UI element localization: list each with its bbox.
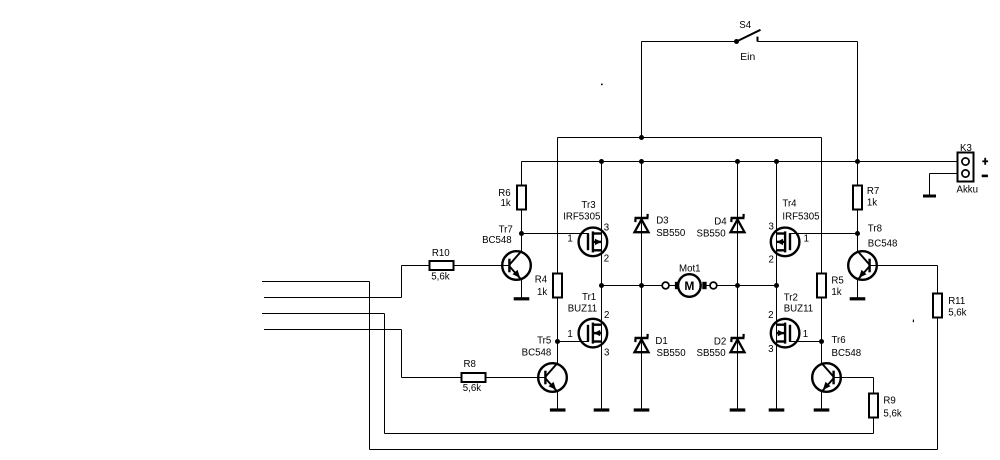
wire Tr1 gate line [558,341,589,343]
wire input2 rise to R10 [401,266,403,298]
label Tr2 [784,292,813,314]
svg-text:R9: R9 [883,395,895,406]
resistor R8 5,6k [462,359,486,394]
resistor R6 1k [498,186,526,210]
wire motor right terminal link [707,285,711,287]
label Tr7 [482,225,513,246]
node motor row / D1 [639,283,644,288]
ground Tr6 emitter [814,408,830,411]
svg-text:Tr4: Tr4 [782,199,797,210]
wire bottom return to R11 [370,449,938,451]
wire R5 bottom to Tr6 collector [821,298,823,364]
label Tr5 [522,335,552,358]
svg-text:Tr6: Tr6 [832,335,846,346]
wire Tr7 emitter to ground [521,280,523,298]
wire left bridge column [601,162,603,409]
node switched rail / S4 [639,135,644,140]
ground left bridge column [594,408,610,411]
label D1 [655,336,686,359]
svg-text:Tr5: Tr5 [537,335,551,346]
wire R7 top lead [857,162,859,186]
pin labels Tr2 [768,310,808,355]
svg-text:SB550: SB550 [697,348,727,359]
svg-text:R11: R11 [948,296,965,307]
svg-text:Tr3: Tr3 [581,200,595,211]
resistor R9 5,6k [869,394,902,420]
svg-text:2: 2 [769,254,774,265]
motor Mot1 [662,264,717,297]
stray dot [601,84,603,86]
label Tr6 [832,335,862,359]
wire motor left terminal link [669,285,675,287]
wire R7 bottom to Tr8 collector [857,210,859,252]
svg-text:Tr1: Tr1 [582,292,596,303]
pin labels Tr3 [567,222,609,264]
wire D4-D2 column [737,162,739,409]
svg-text:3: 3 [768,344,773,355]
transistor Tr6 BC548 [812,363,841,392]
svg-text:R5: R5 [831,276,843,287]
node Tr1 gate / R4 / Tr5 collector [555,339,560,344]
label D3 [656,215,686,238]
ground Tr7 emitter [514,297,530,300]
wire R6 bottom to Tr7 collector [521,210,523,252]
svg-text:1: 1 [567,233,572,244]
svg-text:R8: R8 [464,359,476,370]
svg-text:1k: 1k [831,287,841,298]
svg-text:2: 2 [604,310,609,321]
svg-text:R7: R7 [867,186,879,197]
diode D3 SB550 [635,214,649,232]
svg-text:2: 2 [768,310,773,321]
node Tr2 gate / R5 / Tr6 collector [819,339,824,344]
wire input wire 1 [262,281,370,283]
label Tr3 [563,200,600,223]
wire Tr8 base to R11 [869,265,938,267]
svg-text:D2: D2 [714,336,726,347]
node rail / D3 [639,159,644,164]
svg-text:1: 1 [803,329,808,340]
svg-text:Tr2: Tr2 [784,292,798,303]
svg-text:SB550: SB550 [657,348,687,359]
transistor Tr2 BUZ11 n-channel MOSFET [771,319,800,348]
wire R10 left lead [402,265,430,267]
pin labels Tr4 [769,221,809,265]
wire R9 lower lead [873,418,875,434]
wire input wire 2 [264,297,402,299]
svg-text:R4: R4 [535,274,548,285]
node motor row / left column [599,283,604,288]
svg-text:Tr8: Tr8 [868,224,882,235]
node Tr4 gate / R7 / Tr8 collector [855,231,860,236]
svg-text:D3: D3 [656,215,668,226]
wire Tr8 emitter to ground [857,280,859,298]
svg-text:BC548: BC548 [832,348,862,359]
wire R11 upper lead [937,266,939,294]
ground D2 [730,408,746,411]
svg-text:BC548: BC548 [482,235,512,246]
transistor Tr8 BC548 [848,251,877,280]
svg-text:5,6k: 5,6k [431,271,449,282]
transistor Tr4 IRF5305 p-channel MOSFET [771,228,800,257]
wire motor row right [717,285,777,287]
wire R5 top feed from switched rail [821,138,823,274]
node rail / right column [774,159,779,164]
svg-text:SB550: SB550 [697,228,727,239]
wire R6 top lead [521,162,523,186]
label Tr8 [868,224,898,250]
wire K3 ground drop [929,174,931,195]
diode D4 SB550 [731,214,745,232]
svg-text:Ein: Ein [740,52,755,63]
resistor R4 1k [535,274,562,298]
plus terminal label [982,158,988,165]
node motor row / D2 [735,283,740,288]
svg-text:D4: D4 [714,216,727,227]
ground right bridge column [769,408,785,411]
svg-text:Akku: Akku [957,185,979,196]
svg-text:1: 1 [567,329,572,340]
node rail / D4 [735,159,740,164]
wire Tr3 gate line [522,233,589,235]
wire Tr5 emitter to ground [557,392,559,409]
svg-text:1k: 1k [537,287,547,298]
wire input wire 3 [262,313,385,315]
svg-text:3: 3 [769,221,774,232]
wire D3-D1 column [641,162,643,409]
ground Tr8 emitter [850,297,866,300]
wire switched supply rail [558,137,822,139]
ground Tr5 emitter [550,408,566,411]
svg-text:BC548: BC548 [522,347,552,358]
connector K3 Akku [957,143,979,196]
label Tr4 [782,199,819,223]
wire S4 right to battery rail [758,41,858,43]
wire main supply rail [522,161,958,163]
wire Tr2 gate line [789,341,821,343]
wire K3 minus wire [930,173,958,175]
wire S4 left feed [642,41,737,43]
label D4 [697,216,728,239]
svg-text:1k: 1k [500,198,510,209]
svg-text:R10: R10 [432,248,450,259]
wire bottom return to R9 [385,433,874,435]
transistor Tr5 BC548 [538,363,567,392]
wire R8 left lead [402,377,462,379]
wire Tr6 base to R9 [833,377,874,379]
svg-text:1: 1 [804,233,809,244]
svg-text:IRF5305: IRF5305 [563,211,600,222]
svg-text:SB550: SB550 [656,228,686,239]
diode D1 SB550 [635,334,649,352]
svg-text:K3: K3 [960,143,972,154]
svg-text:S4: S4 [739,20,751,31]
wire R8 to Tr5 base [486,377,547,379]
svg-text:1k: 1k [867,198,877,209]
label D2 [697,336,727,359]
transistor Tr3 IRF5305 p-channel MOSFET [579,228,608,257]
wire R10 to Tr7 base [454,265,511,267]
node rail / left column [599,159,604,164]
ground D1 [634,408,650,411]
switch S4 Ein [734,20,761,63]
svg-text:5,6k: 5,6k [463,383,481,394]
svg-text:3: 3 [604,222,609,233]
pin labels Tr1 [567,310,609,359]
resistor R5 1k [817,274,844,298]
wire Tr4 gate line [789,233,857,235]
svg-text:3: 3 [604,347,609,358]
wire input wire 4 [264,329,402,331]
wire input1 drop [369,282,371,450]
resistor R7 1k [853,186,879,210]
svg-text:5,6k: 5,6k [883,408,901,419]
svg-text:D1: D1 [655,336,667,347]
svg-text:Mot1: Mot1 [679,264,701,275]
wire motor row left [602,285,663,287]
wire S4 left drop to switched rail [641,42,643,138]
transistor Tr1 BUZ11 n-channel MOSFET [579,319,608,348]
wire R11 lower lead [937,318,939,450]
wire input3 drop [384,314,386,434]
resistor R10 5,6k [430,248,454,283]
svg-text:M: M [684,279,694,293]
svg-text:IRF5305: IRF5305 [782,211,819,222]
stray tick [913,320,914,323]
wire S4 right drop to supply rail [857,42,859,162]
transistor Tr7 BC548 [502,251,531,280]
wire R4 top feed from switched rail [557,138,559,274]
svg-text:2: 2 [604,254,609,265]
svg-text:BUZ11: BUZ11 [784,304,813,315]
svg-text:5,6k: 5,6k [948,308,966,319]
svg-text:BC548: BC548 [868,238,898,249]
wire R9 upper lead [873,378,875,394]
node motor row / right column [774,283,779,288]
ground K3 minus [923,195,936,198]
wire R4 bottom to Tr5 collector [557,298,559,364]
wire right bridge column [776,162,778,409]
minus terminal label [982,175,988,178]
node Tr3 gate / R6 / Tr7 collector [519,231,524,236]
wire Tr6 emitter to ground [821,392,823,409]
node rail / R7 [855,159,860,164]
diode D2 SB550 [731,334,745,352]
wire input4 drop to R8 [401,330,403,378]
svg-text:BUZ11: BUZ11 [568,304,597,315]
resistor R11 5,6k [933,294,967,319]
label Tr1 [568,292,597,314]
